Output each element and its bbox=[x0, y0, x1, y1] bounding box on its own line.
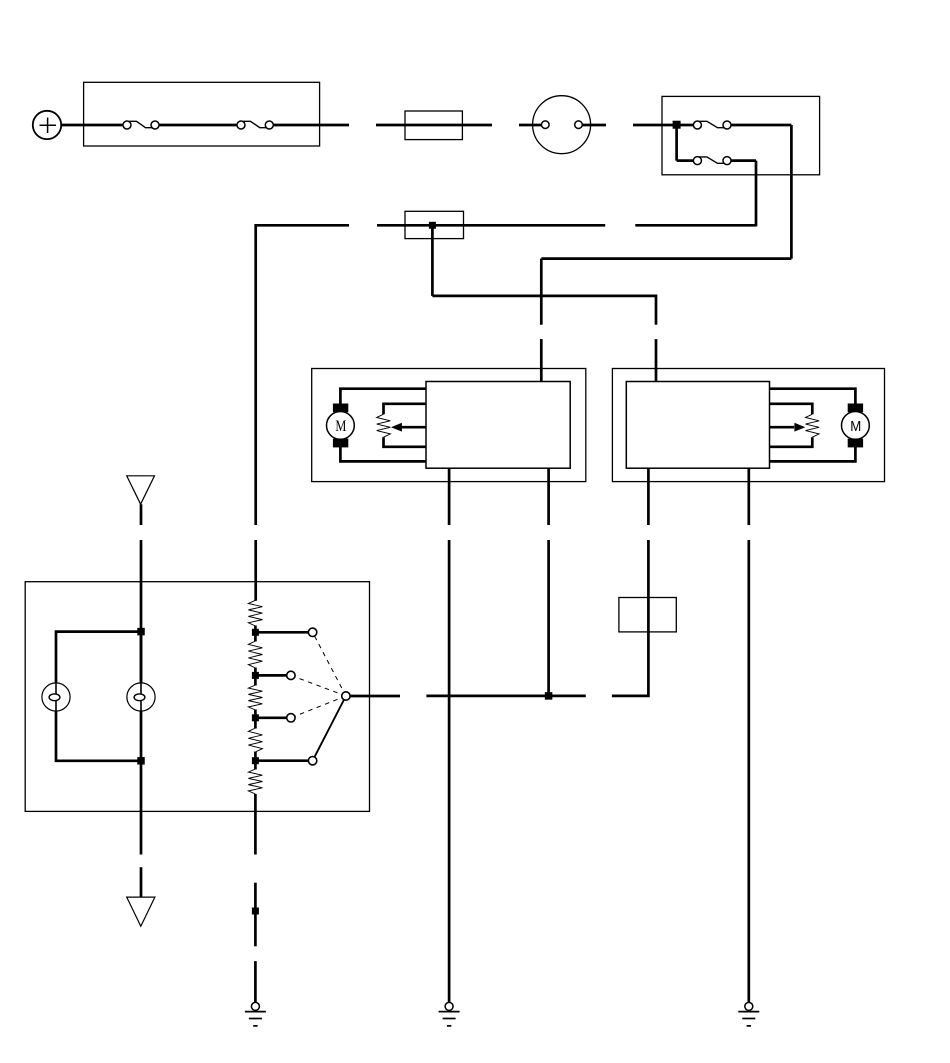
tap wire 4 bbox=[255, 759, 308, 762]
wire (to ignition switch) bbox=[519, 124, 542, 127]
ground G2 bbox=[439, 1002, 460, 1026]
connector triangle (illumination ground) bbox=[127, 897, 155, 926]
wire (F2 out of fuse box) bbox=[273, 124, 349, 127]
connector triangle (illumination feed) bbox=[127, 476, 155, 504]
wire (left module riser upper) bbox=[540, 259, 543, 325]
ground G3 bbox=[738, 1002, 759, 1026]
ladder resistor R5 bbox=[248, 685, 262, 710]
wire (right module riser lower) bbox=[655, 339, 658, 382]
connector C1 bbox=[405, 111, 462, 140]
wire (between lamp nodes) bbox=[140, 632, 143, 683]
switch contact 1 bbox=[308, 628, 316, 636]
tap wire 1 bbox=[255, 631, 308, 634]
wire (ladder feed into switch) bbox=[254, 540, 257, 600]
switch wiper (position 4) bbox=[313, 696, 346, 761]
motor M1 brush lower bbox=[333, 439, 348, 448]
wire (F4 to riser) bbox=[731, 159, 756, 162]
wire (ignition switch out) bbox=[582, 124, 606, 127]
sensor resistor R2 leads bbox=[770, 404, 813, 447]
ladder spine c bbox=[254, 710, 257, 729]
wire (row2 to left corner) bbox=[256, 225, 349, 525]
motor M1 brush upper bbox=[333, 404, 348, 413]
fuse F1 bbox=[123, 121, 159, 129]
motor M2 brush lower bbox=[848, 439, 863, 448]
wire (switch box to lower triangle) bbox=[140, 761, 143, 897]
node (battery feed junction) bbox=[673, 121, 681, 129]
wire (lamp feed into switch) bbox=[140, 540, 143, 683]
sensor resistor R2 bbox=[806, 414, 820, 437]
wire (to fuse F4) bbox=[677, 159, 694, 162]
wire (horizontal to left module riser) bbox=[541, 257, 791, 260]
wire (ladder ground upper) bbox=[254, 883, 257, 947]
power window master switch box bbox=[25, 582, 369, 812]
wire (right module left lead) bbox=[647, 468, 650, 525]
interior fuse box bbox=[662, 96, 820, 174]
tap wire 3 bbox=[255, 716, 286, 719]
wire (left module riser lower) bbox=[540, 339, 543, 382]
left motor module housing bbox=[312, 369, 586, 482]
wire (to interior fuse box) bbox=[633, 124, 677, 127]
motor M2 brush upper bbox=[848, 404, 863, 413]
node (ladder tap 3) bbox=[252, 714, 259, 721]
node (ladder ground splice) bbox=[252, 908, 259, 915]
sensor resistor R1 leads bbox=[384, 404, 427, 447]
ladder spine d bbox=[254, 752, 257, 770]
switch contact 2 bbox=[287, 671, 295, 679]
motor M2 bbox=[842, 412, 870, 440]
fuse F4 bbox=[693, 157, 731, 165]
node (ladder tap 2) bbox=[252, 672, 259, 679]
motor M1 lead lower bbox=[340, 447, 426, 462]
wire (riser from F3 down) bbox=[790, 125, 793, 259]
wire (left module ground lead) bbox=[448, 468, 451, 525]
wire (pole output) bbox=[350, 695, 400, 698]
wire (node to fuse F3) bbox=[677, 124, 694, 127]
motor M1 bbox=[327, 412, 355, 440]
connector C2 bbox=[405, 211, 464, 238]
wire (output row middle) bbox=[426, 695, 585, 698]
motor M2 lead upper bbox=[770, 389, 856, 405]
connector C3 bbox=[619, 598, 676, 632]
wire (right module ground run) bbox=[747, 540, 750, 1003]
wire (right module ground lead) bbox=[747, 468, 750, 525]
wire (lamp return down) bbox=[140, 711, 143, 761]
node (connector C2 junction) bbox=[429, 222, 436, 229]
wire (F1 to F2) bbox=[159, 124, 237, 127]
switch pole contact bbox=[342, 692, 350, 700]
wire (left module signal lead) bbox=[547, 468, 550, 525]
node (ladder tap 1) bbox=[252, 629, 259, 636]
wire (node down to fuse F4) bbox=[675, 125, 678, 161]
wire (battery to fuse F1) bbox=[61, 124, 123, 127]
wire bbox=[376, 124, 492, 127]
wire (lamp parallel branch) bbox=[56, 632, 141, 761]
node (lamp top junction) bbox=[137, 628, 145, 636]
node (lamp bottom junction) bbox=[137, 757, 145, 765]
wire (row2 middle segment) bbox=[377, 224, 605, 227]
wire (right module lead run) bbox=[612, 540, 649, 696]
wire (to right module riser) bbox=[432, 296, 656, 325]
ladder resistor R6 bbox=[248, 728, 262, 752]
node (signal junction) bbox=[545, 692, 553, 700]
battery B+ bbox=[33, 111, 61, 139]
svg-text:M: M bbox=[850, 418, 861, 435]
illumination lamp L1 bbox=[42, 683, 70, 711]
right motor module housing bbox=[612, 369, 884, 482]
wire (ladder ground lower) bbox=[254, 961, 257, 1003]
switch position trace 2 (dashed) bbox=[291, 675, 346, 696]
fuse F2 bbox=[237, 121, 273, 129]
wire (row2 left segment) bbox=[635, 224, 756, 227]
motor M2 lead lower bbox=[770, 447, 856, 462]
switch position trace 3 (dashed) bbox=[291, 696, 346, 718]
wire (left module ground run) bbox=[448, 540, 451, 1003]
wire (ladder to box bottom) bbox=[254, 794, 257, 855]
fuse F3 bbox=[693, 121, 731, 129]
node (ladder tap 4) bbox=[252, 757, 259, 764]
wire (triangle to switch) bbox=[140, 504, 143, 525]
motor M1 lead upper bbox=[340, 389, 426, 405]
wire (left module signal run) bbox=[547, 540, 550, 696]
main fuse box bbox=[84, 82, 320, 146]
svg-text:M: M bbox=[335, 418, 346, 435]
ignition switch SW1 bbox=[533, 96, 591, 154]
wiper arrow (left sensor) bbox=[391, 423, 426, 432]
ladder resistor R4 bbox=[248, 641, 262, 668]
sensor resistor R1 bbox=[377, 414, 391, 437]
ladder resistor R7 bbox=[248, 769, 262, 794]
switch position trace 1 (dashed) bbox=[313, 632, 346, 696]
switch contact 3 bbox=[287, 714, 295, 722]
wire (F3 to right riser) bbox=[731, 124, 792, 127]
wire (riser from F4 down) bbox=[755, 161, 758, 227]
wiper arrow (right sensor) bbox=[770, 423, 806, 432]
ladder spine b bbox=[254, 668, 257, 686]
ladder spine a bbox=[254, 626, 257, 642]
switch contact 4 bbox=[308, 757, 316, 765]
ground G1 bbox=[245, 1002, 266, 1026]
ladder resistor R3 bbox=[248, 600, 262, 626]
left module control unit bbox=[426, 382, 570, 469]
right module control unit bbox=[626, 382, 769, 469]
tap wire 2 bbox=[255, 674, 286, 677]
wire (C2 junction down) bbox=[431, 225, 434, 296]
illumination lamp L2 bbox=[127, 683, 155, 711]
